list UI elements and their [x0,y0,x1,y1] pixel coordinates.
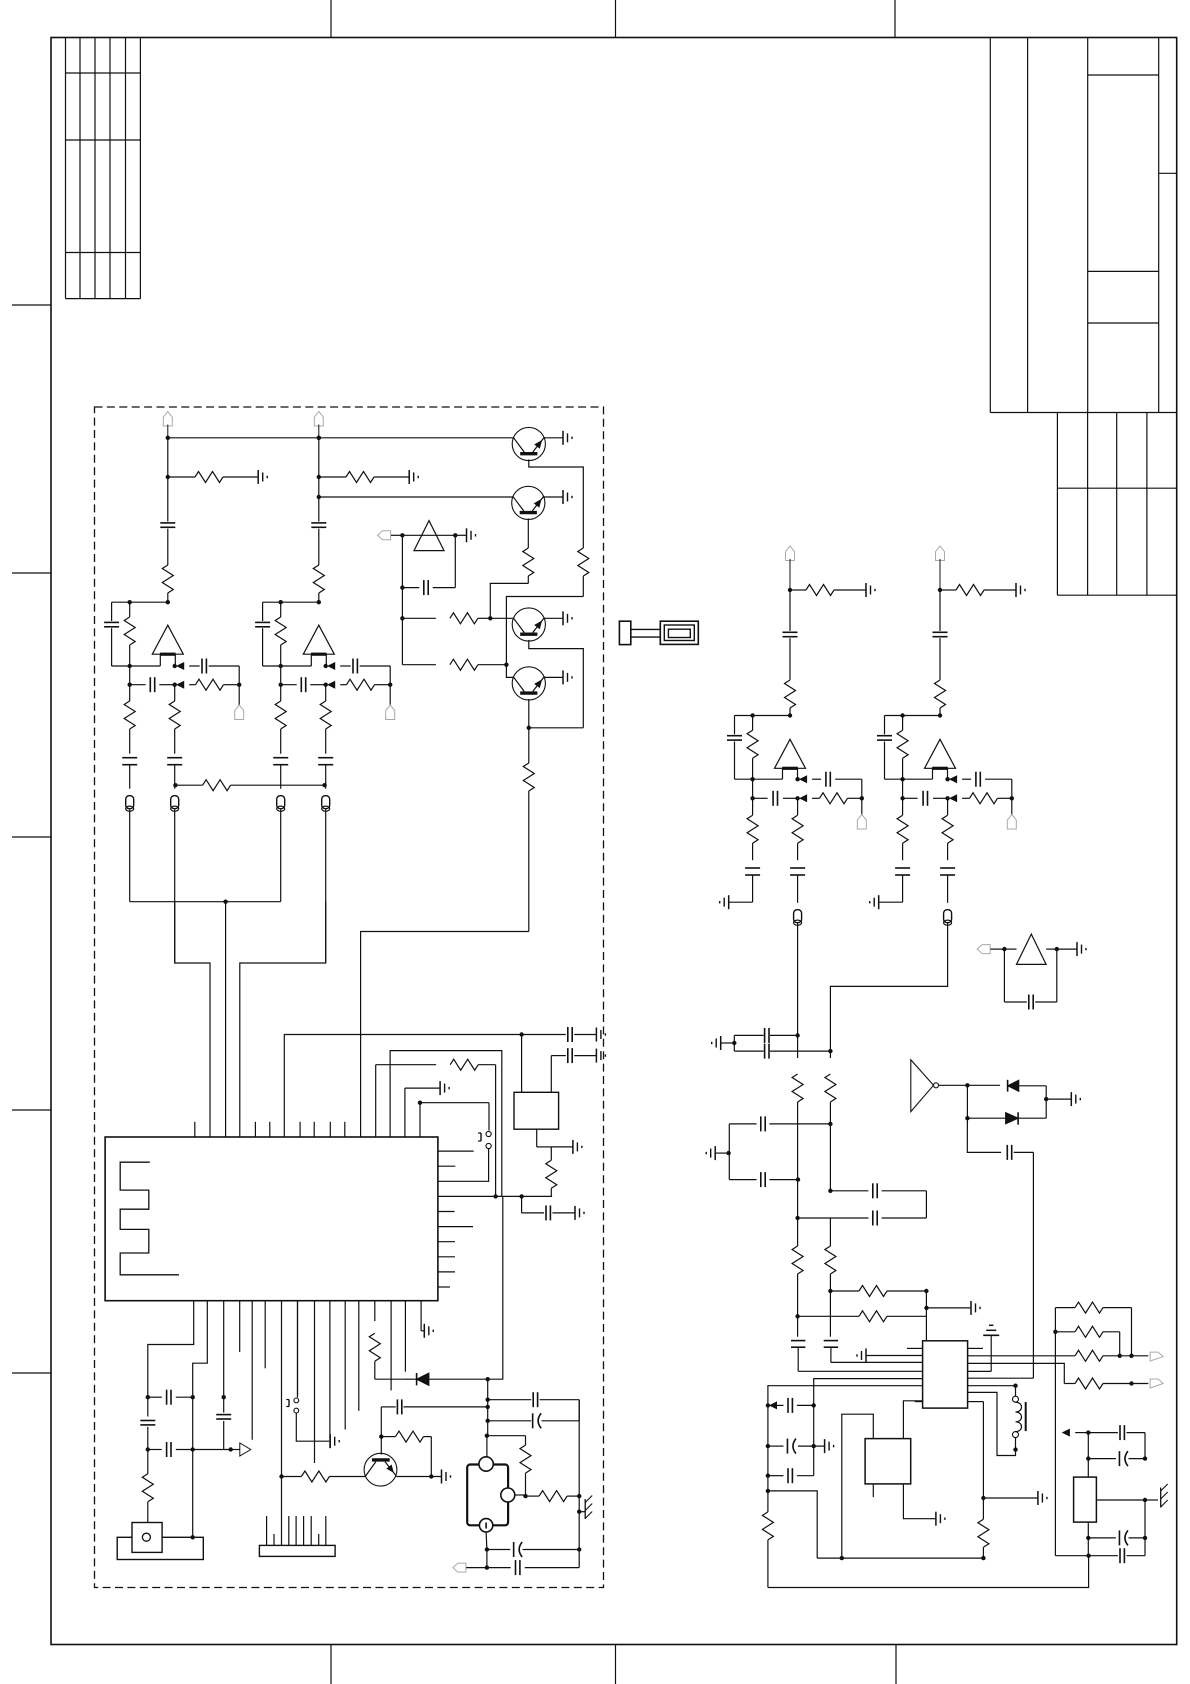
capacitor C35 [798,1211,927,1226]
resistor R38 [762,1491,773,1588]
junction bias 1 [166,475,170,479]
wire pin2 chain [193,1301,208,1398]
IC U1 main processor [105,1137,438,1301]
wire switch down [438,1149,489,1182]
junction U9 out [965,1083,969,1087]
ground C17 [575,1206,584,1220]
resistor R31 [792,1035,803,1179]
resistor R41 net [968,1350,1149,1361]
capacitor C21 [148,1442,193,1457]
resistor R27 Q5 fb [379,1431,433,1479]
capacitor C26 [318,758,333,789]
resistor R22 [523,728,534,932]
left border tick 1 [12,304,51,306]
resistor R14 out [189,679,239,690]
wire rail mid [1055,1555,1088,1557]
wire row 1196 [438,1195,552,1197]
top border tick 3 [894,0,896,38]
resistor R28 pin [369,1301,405,1380]
junction out2 1 [173,682,184,688]
resistor R42 [1064,1378,1131,1389]
junction R36 [795,1314,799,1318]
wire rail1 to Q1 base [168,437,514,439]
wire pinA to ladder [814,1379,923,1406]
resistor R32 [825,1051,836,1191]
capacitor C15 [122,758,137,789]
capacitor C29 [1007,1145,1033,1378]
resistor R18 [578,548,589,597]
resistor R75 lower-left [897,798,908,860]
ground Q4 [544,670,572,684]
capacitor C22 feedback [255,602,270,666]
junction out2 6 [795,795,806,801]
wire U4 top-left [521,1035,523,1093]
capacitor C43 pol [1088,1530,1145,1545]
bottom border tick 3 [895,1645,897,1684]
wire Q4 chain to IC [361,932,529,1138]
capacitor C16 [522,1027,597,1042]
IC U2 pin stubs [907,1348,983,1401]
ground IC pin41 [421,1301,433,1338]
capacitor C73 out [962,772,1012,799]
wire stage2 out down [240,902,326,1137]
capacitor C71 in [933,590,948,680]
capacitor C25 [273,758,288,789]
wire IC2 r4 net [968,1363,1065,1383]
chassis ground right [1145,1484,1168,1508]
capacitor C62 fb [727,716,742,780]
ground S2 [330,1434,339,1448]
junction lad2 2b [812,1405,816,1448]
wire R19 step [490,583,528,618]
ground IC top [405,1081,449,1137]
wire jack top pin [486,1436,488,1457]
resistor R29 jack [487,1436,531,1496]
resistor R12 input [162,565,173,602]
capacitor C30 [734,1028,797,1043]
junction C35 [795,1180,799,1221]
junction rail short [840,1556,844,1560]
connector flag CN8 [977,945,1004,954]
junction flag row [485,1565,489,1569]
wire Q2 emitter [527,518,529,548]
resistor R39 [1055,1302,1131,1356]
wire U8 out [1004,948,1016,950]
capacitor C36 [824,1291,838,1362]
junction jack mid [515,1494,528,1498]
capacitor C25 pol [488,1413,580,1428]
junction coil top [968,1384,1018,1388]
resistor R21 bias [319,472,409,483]
junction R40 [1053,1330,1057,1334]
switch S1 [478,1131,491,1148]
ferrite bead FB7 [944,910,952,926]
transistor Q4 [512,667,545,700]
trimmer VR1 [1074,1477,1097,1522]
wire box3 left riser [842,1414,874,1558]
left border tick 2 [12,572,51,574]
capacitor C40 [768,1446,814,1483]
feedback top wire 2 [263,601,319,603]
node supply rail 1 [166,436,170,440]
junction Q4 emitter [527,726,584,730]
capacitor C31 [734,1044,830,1059]
junction chassis top [577,1494,581,1498]
node opamp6 top [788,713,792,717]
resistor R62 in [785,680,796,716]
wire D pair right [1045,1086,1047,1118]
left border tick 4 [12,1109,51,1111]
op-amp U7 [925,739,956,779]
wire Q3 emitter [529,640,584,728]
capacitor C26 pol [487,1542,579,1557]
junction x830 row [828,1189,832,1193]
resistor R23 feedback [275,602,286,666]
capacitor C75 [895,868,910,902]
ground D pair [1046,1092,1080,1106]
resistor R20 Q3 base [402,613,490,624]
wire D2 down [967,1118,1001,1152]
resistor R71 bias [940,585,1016,596]
junction net top [400,585,404,589]
ground ladder top [712,1036,735,1050]
junction row1196 b [519,1194,523,1198]
junction U8 out [1055,947,1059,951]
capacitor C24 [488,1392,580,1421]
capacitor C41 [1088,1425,1145,1459]
junction bus [223,900,227,904]
capacitor C42 pol [1088,1451,1145,1466]
connector flag CN9 [1150,1352,1163,1361]
wire R18 step [506,597,583,665]
capacitor C76 [940,868,955,903]
junction fb 2 [279,600,283,604]
ground Q5 [396,1470,450,1484]
wire to Q4 base [506,665,513,678]
junction fb 1 [128,600,132,604]
ground G21 [409,470,418,484]
resistor R19 [523,548,534,583]
diode D2 [967,1112,1046,1124]
junction trim 3 [1086,1536,1090,1540]
junction flag node 2 [388,683,392,687]
capacitor C74 [903,791,948,806]
feedback top wire 1 [112,601,168,603]
capacitor C17 low [522,1196,575,1220]
wire stageR2 down [830,923,947,1051]
resistor R25 mic [142,1450,153,1523]
junction rail 7 [938,588,942,592]
resistor R24 out [340,679,390,690]
ground Q2 [544,490,572,504]
capacitor C63 out [812,772,862,799]
capacitor C39 pol [768,1439,814,1454]
resistor R37 [978,1519,989,1558]
junction ladder mid [726,1124,730,1180]
junction R41 a [1118,1354,1122,1358]
junction flag node 7 [1010,796,1014,800]
chassis ground board [579,1496,592,1520]
capacitor C21 input [311,438,326,565]
connector flag CN3 [378,531,403,540]
wire IC2 to box3 [903,1401,922,1439]
capacitor C37 [791,1316,805,1371]
diode D3 [405,1373,488,1385]
capacitor C32 upper [729,1116,830,1131]
junction fb 6 [750,713,754,717]
resistor R36 h [798,1311,927,1322]
supply flag PW1 [163,412,172,438]
ground C18 [596,1049,605,1063]
left border tick 5 [12,1372,51,1374]
wire row B [390,1051,502,1197]
wire to Q3 base [490,617,513,619]
junction U8 in [1002,947,1006,951]
zone table [1057,413,1176,596]
inverter U9 [911,1060,939,1112]
capacitor C66 [790,868,805,903]
junction trim 3b [1143,1500,1147,1540]
ground lad2 [814,1439,834,1453]
node miniamp in [400,533,404,537]
wire U9 out [939,1084,1001,1086]
junction R34 row [828,1289,832,1293]
junction miniamp out [453,533,457,537]
capacitor C24 [281,677,326,692]
junction R41 b [1129,1354,1133,1358]
resistor R66 lower-out [792,798,803,860]
capacitor C14 [130,677,175,692]
junction R42 [1129,1381,1148,1385]
wire pin7 to comb [281,1301,283,1546]
IC U5 box3 [865,1439,911,1484]
resistor R61 bias [790,585,866,596]
dashed board outline [95,407,604,1588]
capacitor C18 U4 [551,1048,596,1092]
capacitor C23 out [340,659,390,685]
capacitor C34 [830,1183,926,1218]
riser IC2 right [968,1402,984,1520]
signal arrow out [231,1443,251,1456]
junction 487b [486,1419,490,1423]
supply flag PW6 [786,546,795,590]
IC U1 bottom pin stubs [240,1301,406,1463]
top border tick 2 [615,0,617,38]
resistor R30 jack mid [526,1491,580,1502]
wire net55 riser [1054,1308,1056,1556]
capacitor C23 Q5 [381,1399,490,1436]
feedback top wire 7 [885,715,941,717]
fb bottom wire 1 [112,665,161,667]
IC U1 right pin stubs [438,1151,474,1287]
wire row A [284,1035,521,1138]
ground 983 [1038,1491,1047,1505]
connector flag CN5 [453,1563,487,1572]
output node 2 [324,663,335,669]
signal arrow D4 [1063,1429,1088,1435]
ground box3 [930,1512,945,1526]
IC U1 crystal meander [120,1162,179,1275]
resistor R13 feedback [124,602,135,666]
resistor R22 input [313,565,324,602]
junction 579 bot [577,1547,581,1551]
resistor R65 lower-left [747,798,758,860]
fb bottom wire 7 [885,778,933,780]
junction fb bottom 7 [900,777,904,781]
stub box3 [872,1484,874,1497]
IC U2 [923,1341,968,1408]
junction fb bottom 6 [750,777,754,781]
junction c-lad 2 [191,1395,195,1399]
ground ladder mid [706,1146,728,1160]
ground ladder right [927,1301,981,1315]
resistor R64 out [812,793,862,804]
remote connector icon [619,621,698,644]
wire 579 vertical [578,1400,580,1550]
earth ground U2 [968,1325,1000,1371]
capacitor C15 miniamp fb [402,535,455,595]
wire coil loop [968,1392,1016,1455]
wire U8 out2 [1046,948,1057,950]
inductor L1 [1013,1386,1026,1452]
ground G71 [1016,583,1025,597]
junction flag node 1 [237,683,241,687]
junction rail2 [317,495,321,499]
op-amp U6 [775,739,806,779]
ground R24 [573,1140,582,1154]
capacitor C72 fb [877,716,892,780]
resistor R11 bias [168,472,258,483]
junction riser 983 [981,1496,985,1500]
ferrite bead FB1a [126,796,134,902]
resistor R34 [825,1218,836,1291]
capacitor C33 lower [729,1172,797,1187]
IC U4 small box [514,1092,559,1129]
resistor R33 [792,1218,803,1316]
junction bias 2 [317,475,321,479]
ground U8 [1057,942,1086,956]
wire S2 to ground [296,1413,329,1441]
junction D mid [1044,1097,1048,1101]
capacitor C61 in [783,590,798,680]
input row dot 6 [750,779,754,800]
capacitor C20 mid [140,1397,155,1449]
connector CN4 comb [259,1545,335,1556]
riser bus wire [130,901,281,903]
microphone MIC1 [117,1523,203,1560]
ferrite bead FB6 [794,910,802,926]
capacitor C22 pin3 [216,1301,231,1450]
transistor Q5 [364,1453,397,1486]
junction Q3 base [488,616,492,620]
connector CN4 pins [267,1516,326,1545]
wire C36 to IC2 [831,1361,923,1363]
ground IC2 left [857,1349,923,1363]
junction D2 in [965,1085,969,1120]
resistor R24 U4 [537,1129,573,1196]
junction fb bottom 1 [128,664,132,668]
wire IC2 to riser [968,1377,1034,1379]
junction jack bot a [485,1532,489,1552]
op-amp U8 buffer [1017,934,1047,964]
wire C37 to IC2 [798,1370,922,1372]
ground Q3 [544,611,572,625]
node opamp7 top [938,713,942,717]
wire VR1 bottom [1087,1522,1089,1556]
junction lad2 2 [766,1444,770,1448]
resistor R21 Q4 base [402,659,506,670]
transistor Q3 [512,608,545,641]
wire pinB to ladder [768,1386,923,1406]
junction jack top [485,1434,489,1438]
output node 7 [945,776,956,782]
junction trim 2b [1143,1456,1147,1460]
wire lad2 step [768,1491,817,1558]
output node 1 [173,663,184,669]
junction flag node 6 [860,796,864,800]
junction rail 983 [981,1556,985,1560]
junction rail right [1086,1554,1090,1558]
capacitor C12 feedback [104,602,119,666]
ferrite bead FB1b [171,796,179,963]
junction c-lad 1 [146,1395,150,1399]
wire jack bottom down [486,1550,488,1568]
junction row1196 a [493,1194,497,1198]
connector flag CN6 [857,798,866,829]
revision table top-left [66,38,141,299]
junction arrow row [229,1447,233,1451]
capacitor C19 [148,1390,193,1405]
capacitor C11 input [160,438,175,565]
resistor R26 lower-out [320,685,331,754]
junction trim top [1086,1430,1090,1434]
feedback top wire 6 [735,715,791,717]
left border tick 3 [12,836,51,838]
op-amp U2 [303,625,334,666]
ground U3 [455,528,475,542]
bottom border tick 2 [615,1645,617,1684]
input row dot 7 [900,779,904,800]
output node 6 [795,776,806,782]
resistor R35 h [830,1286,926,1297]
ground G61 [866,583,875,597]
junction 487a [486,1398,490,1402]
junction VR1 out [1096,1498,1147,1502]
op-amp U3 buffer [414,521,444,551]
resistor R23 row C [376,1059,496,1196]
transistor Q1 [512,427,545,460]
switch S2 [286,1301,298,1413]
wire arrow row [193,1449,231,1451]
resistor R15 lower-left [124,685,135,754]
capacitor C38 [768,1398,814,1413]
resistor R63 fb [747,716,758,780]
junction C30 [795,1033,799,1037]
junction trim 2 [1086,1433,1090,1478]
resistor R76 lower-out [942,798,953,860]
node opamp2 top [317,600,321,604]
wire Q4 emitter [528,699,530,728]
supply flag PW2 [314,412,323,438]
junction rail 6 [788,588,792,592]
junction row A [519,1032,523,1036]
junction c-lad 4 [191,1397,195,1452]
junction out2 2 [324,682,335,688]
ferrite bead FB2b [322,796,330,963]
connector flag CN1 [235,685,244,720]
wire 487 down [487,1379,489,1436]
junction C32 [828,1122,832,1126]
